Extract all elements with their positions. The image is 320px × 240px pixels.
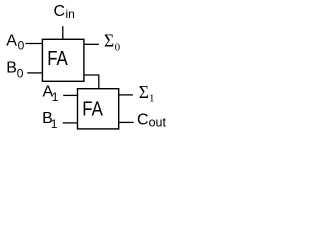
svg-text:1: 1 xyxy=(149,93,155,105)
wire Sigma1 output xyxy=(119,94,133,96)
svg-text:FA: FA xyxy=(47,47,68,70)
svg-text:1: 1 xyxy=(52,90,59,104)
svg-text:B: B xyxy=(6,60,17,77)
wire Cin vertical into FA1 top xyxy=(62,26,64,39)
svg-text:C: C xyxy=(137,112,149,129)
wire B0 input xyxy=(27,72,42,74)
svg-text:0: 0 xyxy=(115,41,121,53)
svg-text:Σ: Σ xyxy=(139,82,149,102)
full adder U1 box FA xyxy=(42,39,84,81)
svg-text:out: out xyxy=(149,115,167,129)
wire B1 input xyxy=(63,122,78,124)
full adder U2 box FA xyxy=(78,89,119,129)
wire carry from U1 to U2 xyxy=(84,75,99,89)
svg-text:1: 1 xyxy=(51,117,58,131)
svg-text:0: 0 xyxy=(18,39,25,53)
svg-text:FA: FA xyxy=(82,97,103,120)
wire Sigma0 output xyxy=(84,43,99,45)
svg-text:C: C xyxy=(54,3,66,20)
svg-text:A: A xyxy=(6,33,17,50)
svg-text:0: 0 xyxy=(17,67,24,81)
wire Cout output xyxy=(119,121,134,123)
wire A1 input xyxy=(63,94,77,96)
svg-text:Σ: Σ xyxy=(104,30,114,50)
svg-text:in: in xyxy=(66,7,75,21)
wire A0 input xyxy=(25,43,42,45)
